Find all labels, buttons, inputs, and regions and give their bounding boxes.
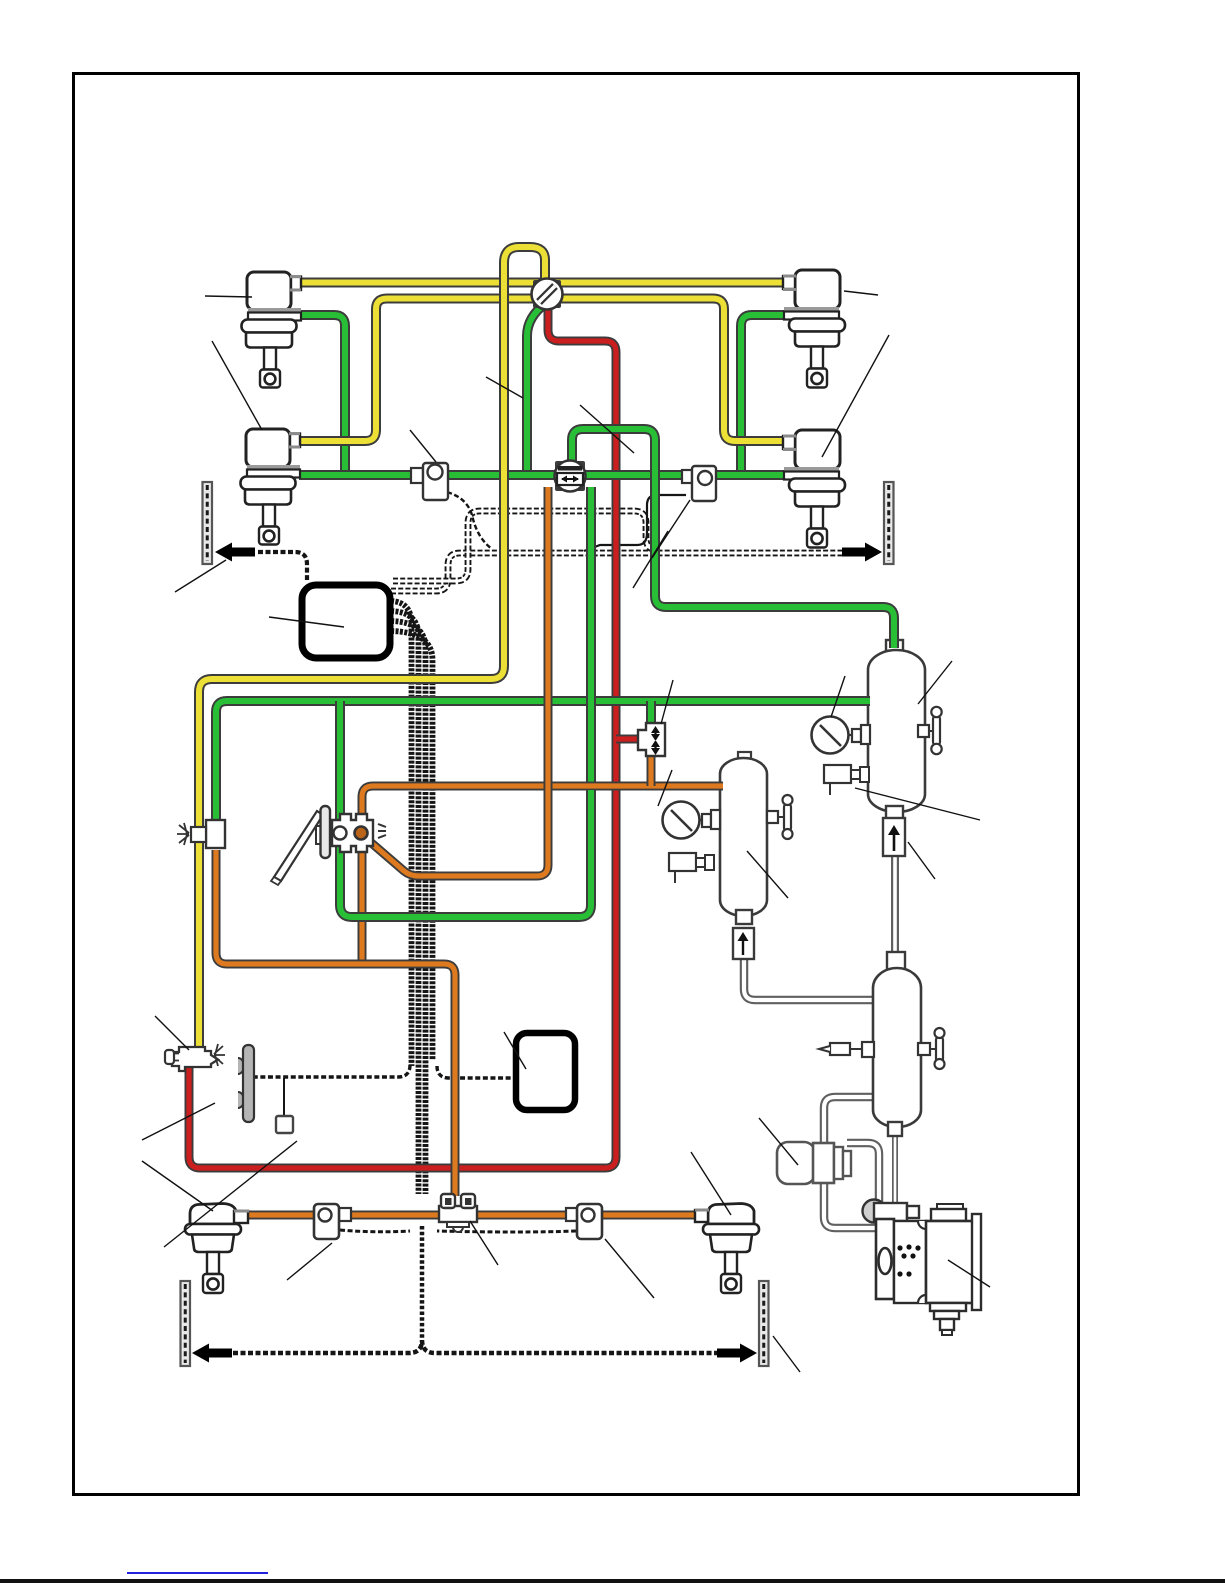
over-route hose: junction box loop to front axle line <box>393 511 658 581</box>
rear left service valve <box>339 1208 351 1221</box>
trailer electrical connector <box>276 1116 293 1133</box>
green line: main front service header (G1) <box>299 470 785 480</box>
leader line: junction block <box>470 1221 498 1265</box>
leader line: rear right chamber <box>691 1152 731 1215</box>
orange line: treadle port drop (O4) <box>358 836 367 962</box>
drop to trailer hand connector <box>283 1078 285 1116</box>
stop light switch <box>682 470 692 483</box>
leader line: front axle left bar <box>175 560 226 592</box>
gray tube: wet tank riser to primary-tank check valve <box>891 853 899 958</box>
leader line: rear left valve <box>287 1243 332 1280</box>
leader line: front right lower chamber <box>822 335 889 457</box>
check valve below secondary tank <box>733 928 754 959</box>
leader line: primary tank <box>918 661 952 704</box>
leader line: stop light switch <box>652 500 690 558</box>
gauge on primary tank <box>812 717 849 754</box>
leader line: primary tank gauge <box>831 676 845 717</box>
gauge on secondary tank <box>663 802 700 839</box>
two-way check valve (front) <box>533 280 561 308</box>
footer link underline <box>127 1572 268 1574</box>
leader line: trailer connector <box>164 1141 297 1247</box>
red line: stub to tractor protection valve (R2) <box>616 735 640 744</box>
yellow line: second crossover with drops to chambers (Y3) <box>299 299 785 442</box>
green line: from two-way check valve down (G3) <box>527 303 546 472</box>
drain cock on primary tank <box>918 725 929 737</box>
leader line: junction box 2 <box>504 1032 526 1069</box>
hose bundle from junction box <box>391 601 412 1066</box>
leader line: governor <box>759 1118 798 1165</box>
front axle left bar <box>203 482 213 564</box>
brake chamber front right upper <box>795 270 840 309</box>
front axle right bar <box>884 482 894 564</box>
hose to relay junction box 2 <box>437 1066 512 1078</box>
leader line: rear right valve <box>605 1239 654 1298</box>
leader line: limiting valve <box>410 430 436 462</box>
trailer supply valve <box>172 1047 218 1071</box>
green line: primary tank header to spring brake valve (G6) <box>216 701 870 822</box>
front axle hose: junction box to right wheel end <box>391 553 851 591</box>
low pressure switch on secondary tank <box>669 853 696 871</box>
front axle hose: left wheel end to junction box <box>258 552 307 580</box>
leader line: secondary tank gauge <box>658 770 672 806</box>
leader line: primary check valve <box>908 842 935 879</box>
yellow line: treadle-to-trailer-valve hairpin (Y2) <box>199 247 545 1049</box>
green line: primary tank supply to double check valve (G5) <box>572 429 894 648</box>
brake chamber front left lower <box>246 429 290 467</box>
orange line: treadle to double check valve (O3) <box>361 487 548 876</box>
yellow line: front service crossover (Y1) <box>299 278 785 288</box>
leader line: yellow crossover line <box>486 377 523 398</box>
orange line: treadle delivery header (O1) <box>362 786 723 830</box>
gray tube: governor unloader line to compressor <box>824 1180 878 1228</box>
spring brake control valve <box>206 820 225 848</box>
leader line: secondary tank <box>747 851 788 898</box>
rear axle left bar <box>181 1281 191 1366</box>
primary air tank (reservoir 1) <box>886 640 903 654</box>
junction box 1 (front) <box>302 585 390 658</box>
leader line: tractor protection valve <box>661 680 673 724</box>
rear axle right arrow <box>717 1344 757 1363</box>
brake chamber rear right <box>708 1204 754 1225</box>
rear left relay valve hose <box>340 1230 410 1232</box>
brake chamber rear left <box>190 1204 236 1225</box>
orange line: TPV stub down (O2) <box>647 754 656 786</box>
leader line: rear axle right bar <box>773 1336 800 1372</box>
gray tube: governor to compressor inlet fitting <box>847 1143 879 1202</box>
rear right service valve <box>566 1208 578 1221</box>
low pressure switch on primary tank <box>824 765 851 783</box>
leader line: rear left chamber <box>142 1161 213 1211</box>
stop light switch wire <box>584 495 686 551</box>
leader line: front left upper chamber <box>205 296 252 297</box>
border frame <box>74 74 1079 1495</box>
leader line: front left lower chamber <box>212 341 262 430</box>
secondary air tank (reservoir 2) <box>738 752 751 763</box>
treadle valve (foot brake pedal) <box>274 811 323 881</box>
leader line: coupling plate <box>142 1103 215 1140</box>
air compressor <box>876 1219 894 1299</box>
brake chamber front left upper <box>247 272 291 310</box>
rear right relay valve hose <box>437 1231 576 1232</box>
brake chamber front right lower <box>795 430 840 469</box>
leader line: double check valve <box>580 405 634 453</box>
orange line: spring brake valve delivery to rear axle (O5) <box>216 850 455 1196</box>
limiting valve hose to axle line <box>447 492 492 549</box>
green line: front chamber TL1 feed (G2) <box>299 315 345 472</box>
compressor inlet fitting <box>863 1200 886 1223</box>
leader line: compressor <box>948 1260 990 1287</box>
drain cock on wet tank <box>918 1043 930 1055</box>
trailer hose coupling plate <box>238 1058 244 1074</box>
governor <box>777 1142 815 1184</box>
bundle continuation below junction block <box>420 1226 425 1339</box>
hose to trailer coupling plate <box>254 1065 410 1077</box>
leader line: trailer supply line <box>633 531 668 588</box>
gray tube: governor sensing line to wet tank <box>824 1097 876 1146</box>
front brake limiting valve <box>411 468 423 483</box>
green line: double check valve riser (G7b) <box>586 487 596 800</box>
gray tube: wet tank drain to compressor inlet <box>892 1134 898 1204</box>
gray tube: wet tank to secondary-tank check valve <box>744 956 876 1000</box>
safety valve on wet tank <box>862 1042 874 1057</box>
front axle right arrow <box>842 543 882 562</box>
rear axle hose line with split <box>233 1340 723 1353</box>
tractor protection valve <box>638 723 665 756</box>
green line: front chamber TR1 feed (G4) <box>741 315 785 472</box>
green line: treadle valve loop bottom (G7a) <box>340 701 591 917</box>
leader line: trailer supply valve <box>155 1016 189 1050</box>
junction box 2 (rear) <box>516 1033 575 1110</box>
rear axle junction block <box>439 1206 477 1222</box>
wet supply tank (reservoir 3) <box>887 952 905 972</box>
green line: stub to tractor protection valve <box>646 701 656 725</box>
leader line: junction box 1 <box>269 617 344 627</box>
check valve below primary tank <box>883 818 905 856</box>
red line: trailer supply loop (R1) <box>189 306 616 1168</box>
front axle left arrow <box>215 543 255 562</box>
leader line: front right upper chamber <box>844 291 878 295</box>
rear axle left arrow <box>192 1344 232 1363</box>
rear axle right bar <box>759 1281 769 1366</box>
footer rule <box>0 1579 1225 1583</box>
leader line: pressure switch <box>855 788 980 820</box>
orange line: rear axle service header (O6) <box>246 1211 700 1220</box>
drain cock on secondary tank <box>767 811 778 823</box>
double check valve with stop light switch <box>555 461 585 491</box>
